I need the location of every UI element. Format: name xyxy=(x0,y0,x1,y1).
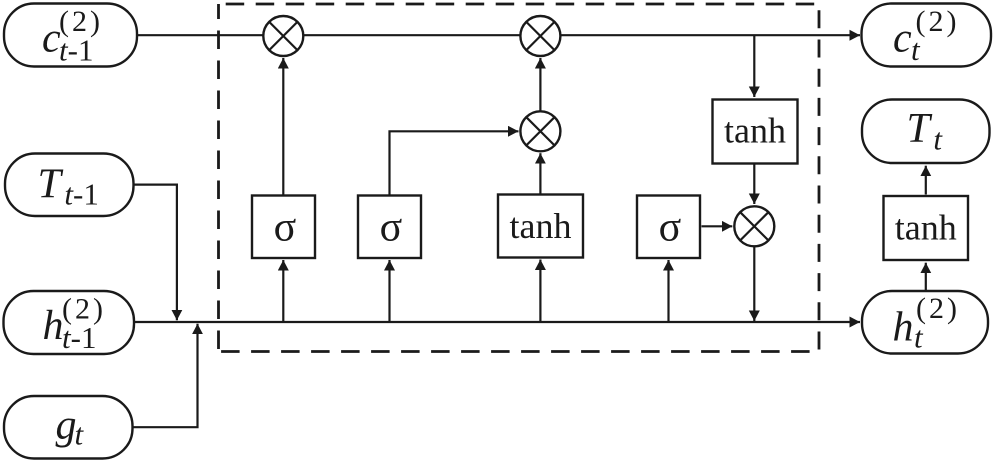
svg-text:t-1: t-1 xyxy=(59,33,93,68)
svg-text:T: T xyxy=(907,106,933,152)
wire branch c-line down to tanh (output candidate) xyxy=(753,35,755,97)
wire tanh-out up to T_t xyxy=(925,166,927,195)
wire h-line riser to sigma2 xyxy=(388,260,390,322)
svg-text:t-1: t-1 xyxy=(62,320,96,355)
wire multiplier M4 down to h-line xyxy=(753,247,755,321)
gate box tanh-right (cell output activation) xyxy=(713,100,798,164)
svg-text:t-1: t-1 xyxy=(64,176,98,211)
svg-text:t: t xyxy=(75,417,85,452)
wire h-line (h_{t-1} to h_t) xyxy=(134,321,860,323)
svg-text:tanh: tanh xyxy=(895,208,957,248)
svg-text:tanh: tanh xyxy=(510,206,572,246)
svg-text:h: h xyxy=(893,304,914,350)
svg-text:tanh: tanh xyxy=(724,111,786,151)
gate box sigma1 xyxy=(252,196,315,259)
svg-text:σ: σ xyxy=(380,205,403,251)
wire c-line (cell state path c_{t-1} to c_t) xyxy=(136,34,860,36)
wire sigma2 up and right to multiplier M3 xyxy=(390,131,519,195)
svg-text:g: g xyxy=(56,402,77,448)
svg-text:T: T xyxy=(38,161,64,207)
wire h-line riser to sigma1 xyxy=(282,260,284,322)
wire h_t up to tanh-out xyxy=(925,263,927,291)
svg-text:c: c xyxy=(893,16,912,62)
wire multiplier M3 up to multiplier M2 xyxy=(539,58,541,111)
node T_{t-1} xyxy=(5,154,134,217)
wire h-line riser to sigma3 xyxy=(667,260,669,322)
node h_{t-1}^{(2)} xyxy=(4,291,135,355)
svg-text:t: t xyxy=(911,32,921,67)
wire tanh down to multiplier M4 xyxy=(753,164,755,204)
wire tanh-mid up to multiplier M3 xyxy=(539,153,541,194)
gate box tanh-mid (candidate activation) xyxy=(498,195,583,258)
svg-text:σ: σ xyxy=(274,205,297,251)
node h_t^{(2)} xyxy=(862,291,988,355)
wire g_t right then up to h-line xyxy=(132,324,198,428)
node T_t xyxy=(862,100,990,164)
multiplier M2 (on cell-state line) xyxy=(520,16,560,56)
node c_t^{(2)} xyxy=(862,4,992,68)
gate box tanh-out (temperature head) xyxy=(884,196,969,260)
multiplier M4 (output gate product) xyxy=(734,206,774,246)
node g_t xyxy=(4,396,133,459)
gate box sigma2 xyxy=(358,196,421,259)
multiplier M1 (forget gate product) xyxy=(263,16,303,56)
wire sigma3 right to multiplier M4 xyxy=(702,225,733,227)
node c_{t-1}^{(2)} xyxy=(4,4,137,68)
svg-text:h: h xyxy=(43,303,64,349)
multiplier M3 (input gate product) xyxy=(520,111,560,151)
wire h-line riser to tanh-mid xyxy=(539,260,541,323)
wire sigma1 up to multiplier M1 xyxy=(282,58,284,195)
svg-text:t: t xyxy=(914,320,924,355)
svg-text:(2): (2) xyxy=(916,5,960,38)
svg-text:t: t xyxy=(933,121,943,156)
dashed LSTM cell boundary box xyxy=(219,4,820,352)
gate box sigma3 (output gate) xyxy=(637,196,700,259)
wire T_{t-1} right then down to h-line xyxy=(133,185,177,321)
svg-text:σ: σ xyxy=(659,205,682,251)
